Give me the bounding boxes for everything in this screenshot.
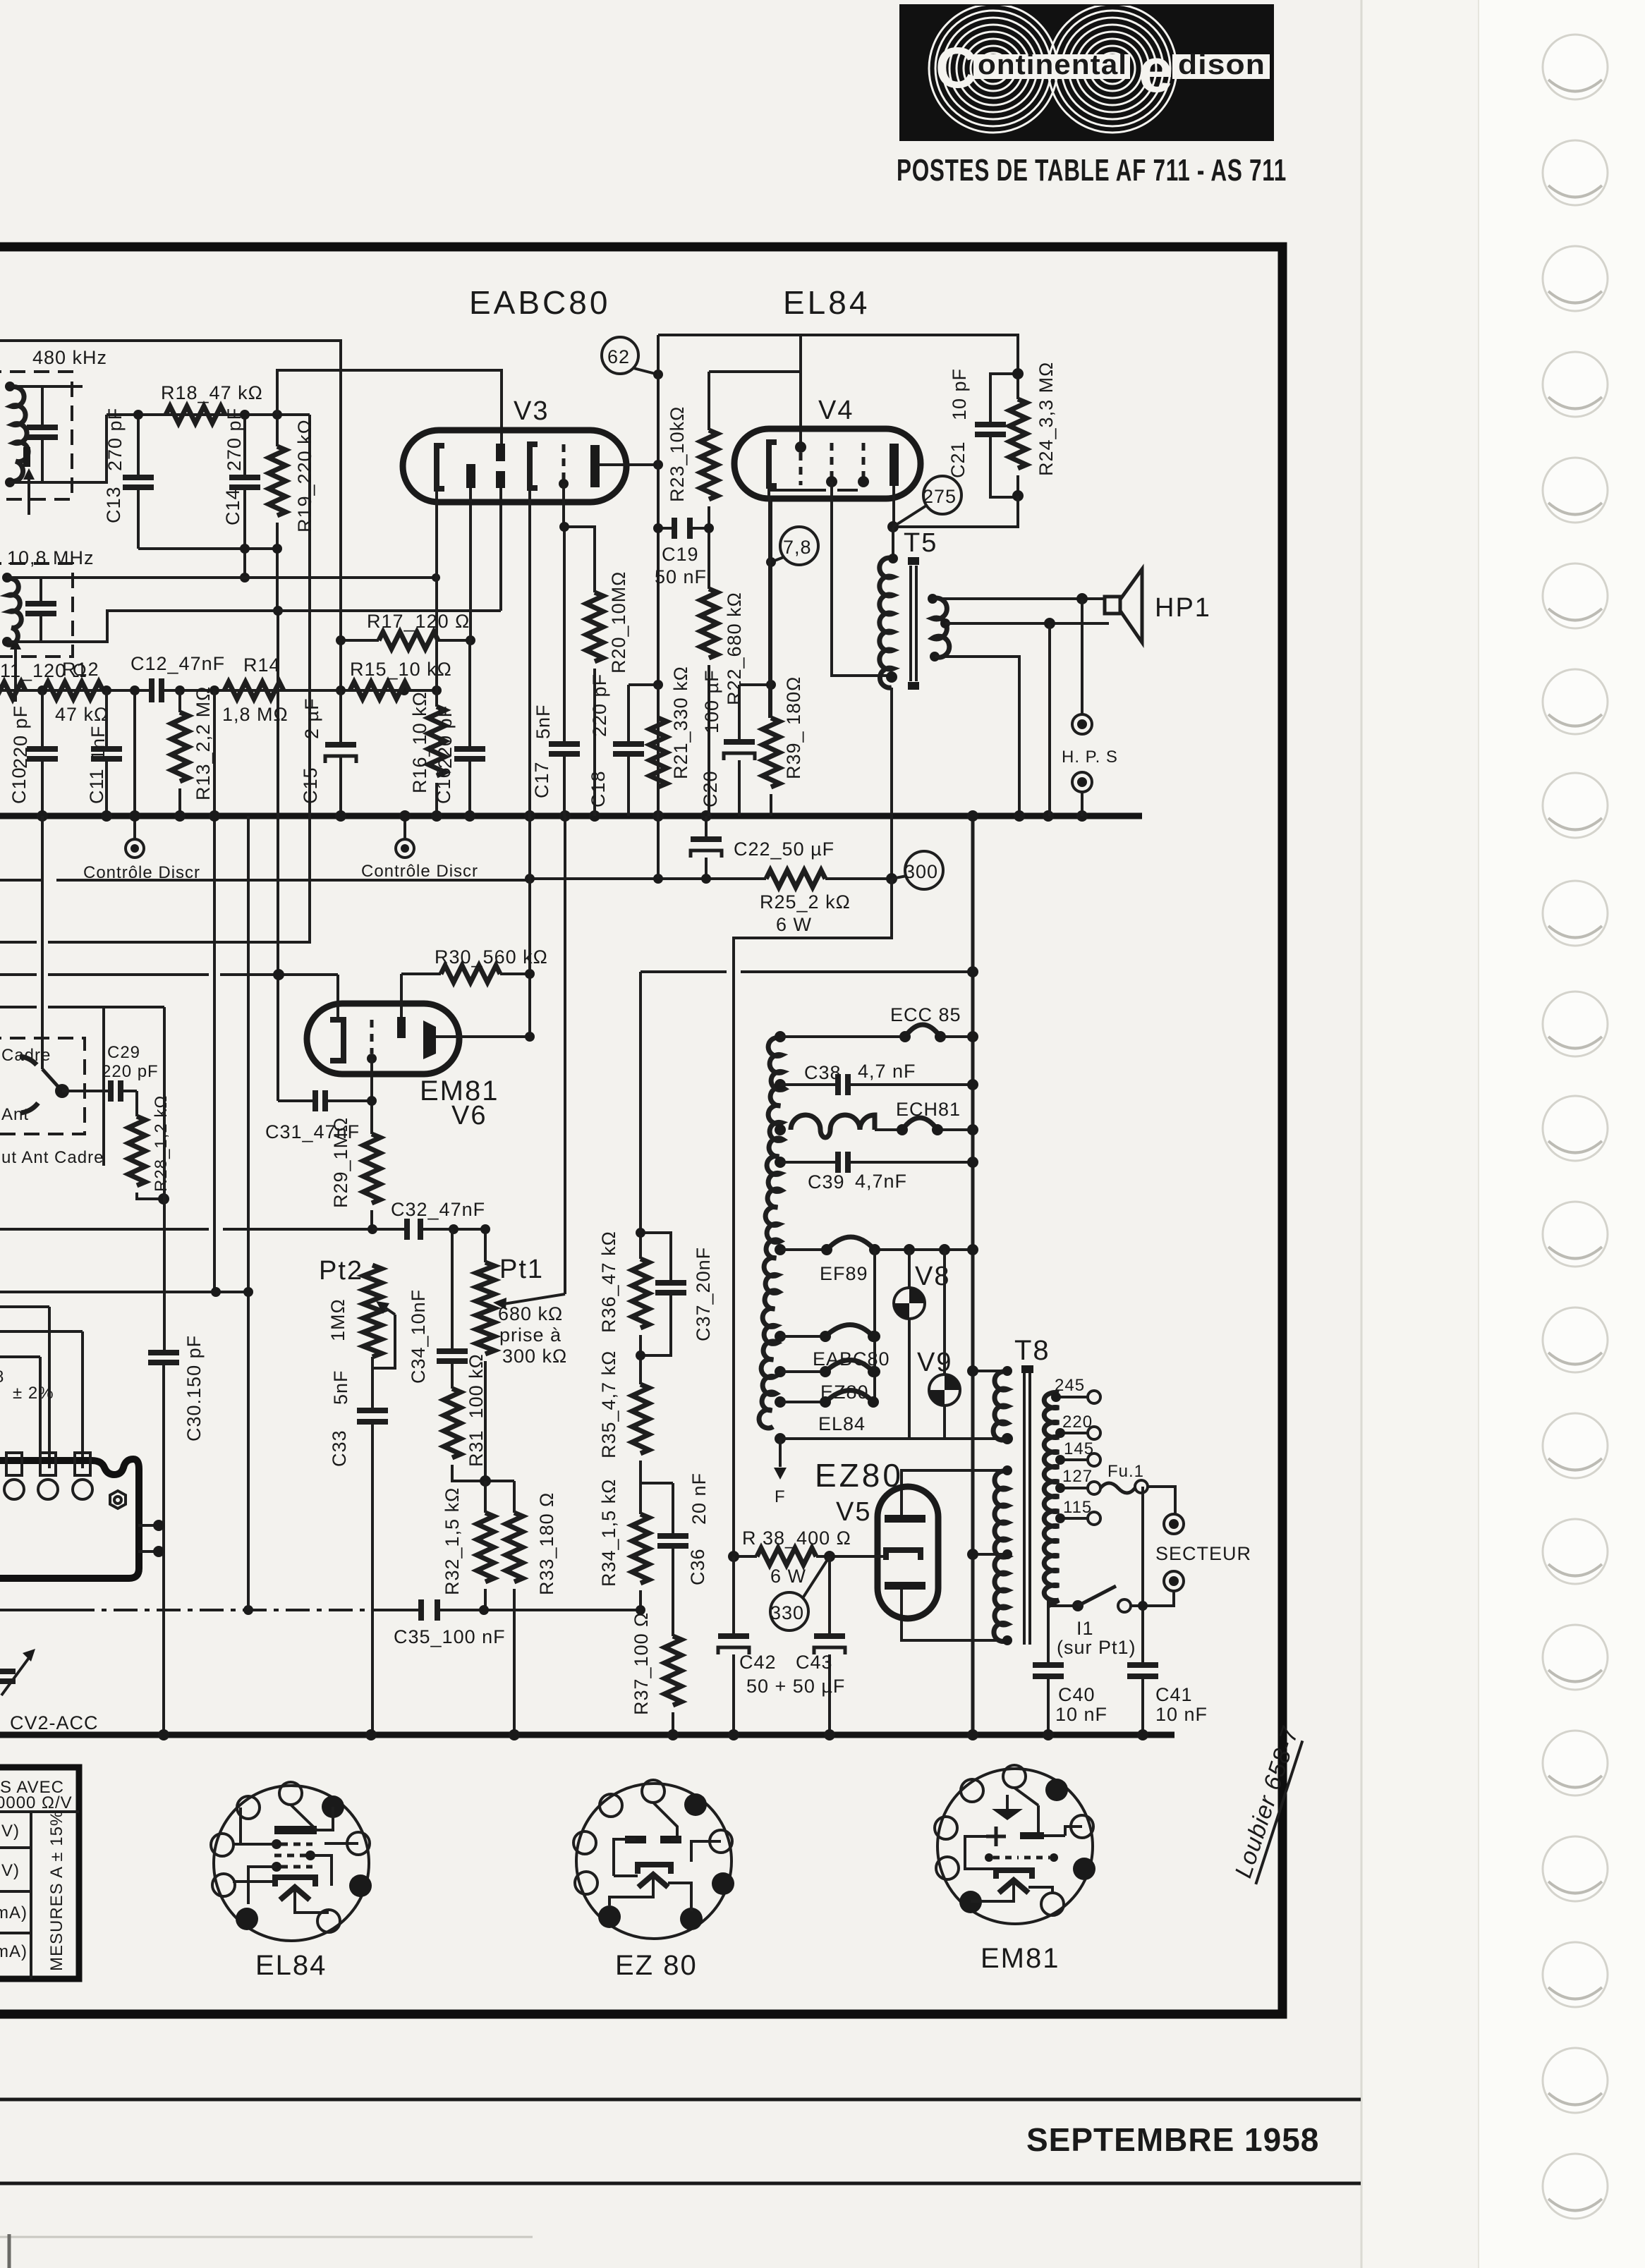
svg-text:EL84: EL84 <box>783 284 870 321</box>
footer rules <box>0 2098 1361 2102</box>
T5 secondary coil <box>933 598 949 657</box>
resistor R23 10k <box>708 372 710 589</box>
rim pins <box>279 1782 302 1805</box>
svg-text:(sur Pt1): (sur Pt1) <box>1057 1637 1136 1658</box>
wire to C29 <box>62 1090 111 1092</box>
wire fuse node to C41 <box>1141 1487 1144 1735</box>
svg-text:T8: T8 <box>1014 1335 1050 1366</box>
resistor R15 10k <box>350 682 409 699</box>
capacitor C37 20nF <box>641 1233 671 1355</box>
svg-text:10 nF: 10 nF <box>1055 1704 1107 1725</box>
V6 cathode wire <box>336 975 339 1020</box>
trimmer 2 <box>40 1453 56 1475</box>
svg-text:R14: R14 <box>243 654 281 676</box>
svg-text:62: 62 <box>607 346 630 367</box>
resistor R25 2k 6W <box>766 870 825 887</box>
capacitor C20 100uF electrolytic <box>739 685 771 816</box>
capacitor C15 2uF electrolytic <box>339 690 342 816</box>
signature Loubier 658-7 <box>1229 1724 1305 1884</box>
plus sign <box>986 1827 1006 1846</box>
cathode bracket <box>275 1877 315 1886</box>
heater chevron <box>280 1887 310 1900</box>
wire HPS column to bus <box>1048 623 1051 816</box>
svg-text:C41: C41 <box>1155 1684 1193 1705</box>
svg-text:C18: C18 <box>588 770 609 807</box>
svg-text:H. P. S: H. P. S <box>1062 748 1118 767</box>
tube link EF89 <box>827 1237 875 1250</box>
capacitor C14 <box>243 415 246 578</box>
heater top row ECC85 <box>780 1035 973 1038</box>
filament arrow F <box>779 1439 782 1467</box>
dash-dot AGC line <box>0 1609 641 1611</box>
heater chevron <box>999 1880 1028 1893</box>
trimmer arrow <box>28 474 30 515</box>
Pt1 wiper <box>493 1298 506 1310</box>
capacitor C36 20nF <box>672 1483 674 1636</box>
antenna switch dashed box <box>0 1038 85 1134</box>
C39 row <box>780 1161 973 1164</box>
socket internal wires <box>233 1805 358 1913</box>
wire plate feedback row <box>893 496 1018 527</box>
svg-text:V5: V5 <box>836 1497 871 1527</box>
V5 cathode lead <box>830 1555 886 1558</box>
resistor R17 120 ohm <box>341 639 471 642</box>
wire column C11 down <box>102 1007 105 1166</box>
svg-text:R34_1,5 kΩ: R34_1,5 kΩ <box>598 1479 619 1587</box>
tap 127 + fuse Fu.1 <box>1059 1487 1088 1489</box>
AVC-line row to back bias <box>641 970 973 973</box>
V4 grid2 dashed <box>830 443 834 477</box>
tap 245 <box>1055 1396 1088 1398</box>
resistor R29 1M <box>363 1134 380 1203</box>
resistor R35 4.7k <box>632 1384 649 1453</box>
svg-text:EZ 80: EZ 80 <box>615 1950 698 1981</box>
T5 primary coil <box>892 527 894 557</box>
HT vertical rail <box>971 816 975 1735</box>
V4 pin wires <box>769 486 770 718</box>
svg-text:SECTEUR: SECTEUR <box>1155 1543 1251 1564</box>
svg-text:300 kΩ: 300 kΩ <box>502 1346 567 1367</box>
resistor R19 220k <box>276 415 279 611</box>
capacitor C35 100nF series <box>421 1599 437 1621</box>
svg-text:V): V) <box>1 1822 20 1841</box>
V3 plate lead <box>600 463 658 466</box>
wire coil bottom row to R18 row <box>10 415 107 482</box>
trimmer arrow 2 <box>14 645 17 702</box>
resistor R21 330k <box>657 685 660 718</box>
svg-text:6 W: 6 W <box>776 914 812 935</box>
target bars <box>1020 1832 1044 1839</box>
svg-text:R23_10kΩ: R23_10kΩ <box>667 406 688 502</box>
socket diagram EM81 <box>935 1765 1095 1974</box>
resistor R37 100 ohm <box>664 1636 681 1705</box>
IF tuning capacitor (10.8MHz) <box>40 578 42 642</box>
svg-text:V4: V4 <box>818 396 854 425</box>
svg-text:C20: C20 <box>700 770 721 807</box>
pointer 275 <box>893 506 926 527</box>
resistor R22 680k <box>700 589 717 658</box>
schematic frame <box>0 247 1282 2014</box>
V3 grid plates <box>496 444 505 461</box>
tap 145 <box>1059 1458 1088 1461</box>
jack SECTEUR top <box>1164 1514 1184 1534</box>
svg-text:680 kΩ: 680 kΩ <box>498 1303 563 1324</box>
socket diagram EZ80 <box>573 1780 734 1981</box>
svg-text:C29: C29 <box>107 1043 140 1062</box>
resistor R38 400 ohm <box>734 1555 830 1558</box>
svg-text:C39: C39 <box>808 1171 845 1193</box>
node circle 7,8 <box>780 527 818 565</box>
svg-text:10,8 MHz: 10,8 MHz <box>7 547 95 568</box>
svg-text:R18_47 kΩ: R18_47 kΩ <box>161 382 263 403</box>
switch contacts <box>20 1056 37 1065</box>
T8 HV bottom lead to EZ80 heater <box>902 1590 1007 1640</box>
heater chain coil <box>759 1037 784 1428</box>
core bar <box>23 447 30 467</box>
page bottom edge fragment <box>0 2236 533 2238</box>
svg-text:C22_50 µF: C22_50 µF <box>734 839 834 860</box>
bottom ground bus <box>0 1732 1174 1738</box>
socket internal wires <box>609 1803 721 1911</box>
T8 heater winding <box>973 1370 1007 1372</box>
resistor R28 1.2k <box>135 1091 138 1116</box>
svg-text:R19_220 kΩ: R19_220 kΩ <box>294 419 315 532</box>
svg-text:C: C <box>935 36 978 100</box>
svg-text:480 kHz: 480 kHz <box>32 347 107 368</box>
svg-text:V): V) <box>1 1861 20 1880</box>
svg-text:ontinental: ontinental <box>978 49 1127 80</box>
resistor R16 10k <box>435 690 438 816</box>
resistor R12 47k <box>44 682 103 699</box>
hex nut <box>110 1491 126 1508</box>
IF tuning capacitor (480kHz) <box>41 386 44 482</box>
dash rows <box>993 1856 1019 1860</box>
svg-text:± 2%: ± 2% <box>13 1384 54 1403</box>
svg-text:EL84: EL84 <box>255 1950 327 1981</box>
V4 cathode bracket <box>769 442 777 486</box>
svg-text:2 µF: 2 µF <box>301 697 322 739</box>
ECH81 row <box>875 1128 973 1131</box>
measurement table <box>0 1767 79 1979</box>
svg-text:C38: C38 <box>804 1062 842 1083</box>
svg-text:R32_1,5 kΩ: R32_1,5 kΩ <box>442 1487 463 1595</box>
C13/C14 bottom row <box>138 547 278 550</box>
svg-text:220 pF: 220 pF <box>435 705 456 769</box>
tube link ECC85 <box>905 1025 940 1037</box>
svg-text:275: 275 <box>923 486 957 507</box>
T8 core <box>1024 1368 1030 1645</box>
svg-text:C11: C11 <box>86 768 107 804</box>
jack SECTEUR bottom <box>1164 1571 1184 1591</box>
svg-text:20 nF: 20 nF <box>688 1473 710 1525</box>
svg-text:prise à: prise à <box>499 1324 562 1346</box>
wire B+ branch down to audio section <box>734 879 892 1556</box>
svg-text:C40: C40 <box>1058 1684 1095 1705</box>
capacitor C39 4.7nF <box>838 1152 848 1173</box>
resistor R30 560k <box>401 973 530 975</box>
svg-text:C21: C21 <box>947 441 969 478</box>
tube column <box>873 1250 876 1402</box>
node circle 300 <box>905 851 943 889</box>
svg-text:C17: C17 <box>531 761 552 798</box>
svg-text:V9: V9 <box>917 1348 952 1377</box>
capacitor C10 220pF <box>41 690 44 816</box>
resistor R39 180 ohm <box>770 499 772 718</box>
R18 row wire <box>107 413 310 416</box>
svg-text:50 nF: 50 nF <box>655 566 707 587</box>
V5 plate bottom <box>885 1582 925 1590</box>
svg-text:R16_10 kΩ: R16_10 kΩ <box>409 691 430 793</box>
wire col751 below bus <box>528 816 531 1037</box>
capacitor C33 5nF <box>371 1357 374 1735</box>
socket internal wires <box>965 1788 1082 1901</box>
svg-text:R28_1,2 kΩ: R28_1,2 kΩ <box>152 1095 171 1192</box>
svg-text:50 + 50 µF: 50 + 50 µF <box>746 1676 845 1697</box>
svg-text:MESURES A ± 15%: MESURES A ± 15% <box>47 1810 66 1971</box>
svg-text:220 pF: 220 pF <box>102 1062 159 1081</box>
loudspeaker HP1 <box>1105 597 1120 614</box>
trimmer feed columns <box>49 1307 83 1468</box>
svg-text:ECH81: ECH81 <box>896 1099 961 1120</box>
svg-text:100 µF: 100 µF <box>701 669 722 733</box>
svg-text:6 W: 6 W <box>770 1566 806 1587</box>
resistor R33 180 ohm <box>513 1481 516 1513</box>
svg-text:C10: C10 <box>8 767 30 804</box>
svg-text:POSTES DE TABLE AF 711 - AS 71: POSTES DE TABLE AF 711 - AS 711 <box>897 153 1287 188</box>
svg-text:5: 5 <box>0 348 1 369</box>
resistor R24 3.3M <box>1016 374 1019 496</box>
svg-text:C33: C33 <box>329 1429 350 1467</box>
IF coil L (480kHz) <box>10 387 28 482</box>
svg-text:C15: C15 <box>300 767 321 804</box>
detector row wire <box>0 689 436 692</box>
bottom bus dots <box>365 1729 377 1740</box>
V3 diode cathode bracket 2 <box>530 444 538 488</box>
capacitor C43 50uF electrolytic <box>828 1556 831 1735</box>
svg-text:C16: C16 <box>433 767 454 804</box>
svg-text:Fu.1: Fu.1 <box>1107 1462 1144 1481</box>
wire 10.8 bottom row to V3 detector <box>7 488 501 642</box>
chassis tuning block <box>0 1459 139 1578</box>
tube link EL84 <box>780 1401 824 1403</box>
T5 primary bottom to 300 node <box>890 688 893 879</box>
binder holes <box>1543 35 1608 2219</box>
trimmer 1 <box>6 1453 22 1475</box>
T8 HV mid tap to rail <box>973 1553 1007 1556</box>
wire fuse to SECTEUR <box>1148 1487 1175 1515</box>
svg-text:C13: C13 <box>103 486 124 523</box>
V3 pin wires <box>435 489 438 690</box>
capacitor C18 220pF <box>629 685 658 816</box>
svg-text:R33_180 Ω: R33_180 Ω <box>536 1492 557 1595</box>
V5 cathode bracket <box>886 1550 921 1560</box>
capacitor C12 47nF series <box>152 680 162 701</box>
V6 fluorescent screen <box>423 1020 436 1059</box>
svg-text:R 38_400 Ω: R 38_400 Ω <box>742 1528 851 1549</box>
svg-text:EABC80: EABC80 <box>469 284 610 321</box>
main ground bus <box>0 813 1142 819</box>
wire column from R18 row down <box>0 415 310 942</box>
svg-text:mA): mA) <box>0 1942 28 1961</box>
speaker wire top <box>933 597 1105 600</box>
switch arm <box>42 1069 62 1091</box>
T8 mains winding <box>1044 1392 1059 1606</box>
node circle 330 <box>770 1592 808 1630</box>
oscillator row fragment <box>0 1307 83 1331</box>
capacitor C31 47nF series <box>278 1099 372 1102</box>
svg-text:HP1: HP1 <box>1155 593 1211 623</box>
capacitor C32 47nF series <box>372 1228 485 1231</box>
svg-text:R31_100 kΩ: R31_100 kΩ <box>466 1353 487 1467</box>
capacitor C42 50uF electrolytic <box>732 1556 735 1735</box>
padder row with 2% cap <box>0 1357 40 1468</box>
wire row to oscillator padder <box>0 1006 164 1008</box>
svg-text:CV2-ACC: CV2-ACC <box>10 1712 99 1733</box>
svg-text:T5: T5 <box>904 528 937 558</box>
svg-text:245: 245 <box>1055 1376 1085 1395</box>
V6 target wire <box>400 974 403 1017</box>
IF coil L (10.8MHz) <box>7 578 21 645</box>
fuse element <box>1100 1483 1135 1493</box>
svg-text:EL84: EL84 <box>818 1413 866 1434</box>
tube V5 EZ80 rectifier <box>878 1487 938 1618</box>
svg-text:R37_100 Ω: R37_100 Ω <box>631 1612 652 1715</box>
svg-text:EF89: EF89 <box>820 1263 868 1284</box>
node circle 62 <box>602 337 638 374</box>
V6 screen wire <box>436 1035 530 1038</box>
V6 grid column <box>370 1059 373 1134</box>
svg-text:mA): mA) <box>0 1903 28 1922</box>
tube link EABC80 <box>780 1335 824 1338</box>
resistor R18 47k <box>166 406 225 423</box>
svg-text:ECC 85: ECC 85 <box>890 1004 961 1025</box>
resistor R36 47k <box>639 972 642 1259</box>
svg-text:R25_2 kΩ: R25_2 kΩ <box>760 891 851 913</box>
svg-text:4,7nF: 4,7nF <box>855 1171 907 1192</box>
Continental Edison logo <box>900 4 1273 140</box>
svg-text:Pt1: Pt1 <box>499 1255 544 1284</box>
svg-text:Contrôle Discr: Contrôle Discr <box>361 862 478 881</box>
capacitor C19 50nF series <box>658 527 709 530</box>
svg-text:V6: V6 <box>451 1101 487 1130</box>
switch I1 <box>1048 1599 1078 1606</box>
V4 plate <box>890 444 899 486</box>
capacitor C38 4.7nF <box>838 1074 848 1095</box>
svg-text:1,8 MΩ: 1,8 MΩ <box>222 704 289 725</box>
svg-text:5nF: 5nF <box>533 704 554 739</box>
svg-text:EZ80: EZ80 <box>815 1457 904 1494</box>
svg-text:R20_10MΩ: R20_10MΩ <box>608 571 629 673</box>
svg-text:R29_1MΩ: R29_1MΩ <box>330 1117 351 1208</box>
svg-text:R39_ 180Ω: R39_ 180Ω <box>783 676 804 779</box>
svg-text:C19: C19 <box>662 544 699 565</box>
capacitor C40 10nF <box>1047 1606 1050 1735</box>
svg-text:R35_4,7 kΩ: R35_4,7 kΩ <box>598 1351 619 1458</box>
V6 cathode bracket <box>330 1020 344 1061</box>
svg-text:300: 300 <box>904 861 938 882</box>
trimmer 3 <box>75 1453 90 1475</box>
anode bars <box>625 1836 646 1843</box>
tube V6 EM81 <box>307 1004 459 1074</box>
resistor R34 1.5k <box>639 1483 642 1514</box>
svg-text:115: 115 <box>1063 1498 1092 1517</box>
wire V3 pin2 column <box>469 502 472 640</box>
wire AVC top <box>0 341 341 690</box>
svg-text:I1: I1 <box>1076 1618 1094 1639</box>
V4 grid1 dashed <box>795 441 806 453</box>
svg-text:C12_47nF: C12_47nF <box>130 653 225 674</box>
svg-text:10 pF: 10 pF <box>949 368 970 420</box>
svg-text:8: 8 <box>0 1367 4 1386</box>
svg-text:R17_120 Ω: R17_120 Ω <box>367 611 470 632</box>
V6 target rod <box>397 1017 406 1038</box>
svg-text:R13_2,2 MΩ: R13_2,2 MΩ <box>193 686 214 800</box>
svg-text:EM81: EM81 <box>981 1943 1060 1974</box>
chassis terminals <box>138 1525 164 1551</box>
speaker wire bottom <box>945 622 1109 625</box>
pointer 7,8 <box>771 557 784 562</box>
resistor R32 1.5k <box>484 1481 487 1513</box>
capacitor C22 50uF electrolytic <box>705 816 708 879</box>
capacitor C13 <box>137 415 140 549</box>
wire discriminator AF column to C31 <box>277 611 279 1101</box>
grid rows dashed <box>281 1843 312 1846</box>
tube V3 EABC80 <box>403 430 626 502</box>
svg-text:C14: C14 <box>222 488 243 525</box>
V3 diode cathode bracket 1 <box>437 446 444 489</box>
heater bottom row <box>780 1437 1007 1440</box>
svg-text:Ant: Ant <box>1 1105 29 1124</box>
V6 grid dashed <box>370 1020 374 1054</box>
oscillator coupling coil <box>791 1115 875 1138</box>
bus junction dots <box>37 810 48 822</box>
jack H.P.S top <box>1081 599 1083 714</box>
wire col801 to Pt1 wiper <box>564 816 566 1294</box>
svg-text:R12: R12 <box>62 659 99 680</box>
pointer 330 <box>803 1556 830 1598</box>
jack Controle Discr 1 <box>133 690 136 839</box>
resistor R20 10M <box>586 592 603 661</box>
wire 10.8 top row <box>7 576 436 579</box>
resistor R14 1.8M <box>224 682 284 699</box>
svg-text:330: 330 <box>770 1602 804 1623</box>
Pt2 wiper <box>372 1315 395 1368</box>
wire coil top row <box>10 385 83 388</box>
resistor R11 120 ohm (cut at edge) <box>0 682 25 699</box>
capacitor C17 5nF <box>549 744 580 754</box>
T8 HV winding <box>994 1471 1007 1642</box>
svg-text:R22_680 kΩ: R22_680 kΩ <box>724 592 745 705</box>
capacitor C16 220pF <box>468 640 471 816</box>
svg-text:C36: C36 <box>687 1548 708 1585</box>
plate bar <box>274 1826 317 1834</box>
V3 triode plate <box>590 445 600 487</box>
svg-text:dison: dison <box>1178 49 1265 80</box>
svg-text:1nF: 1nF <box>87 725 109 760</box>
svg-text:220 pF: 220 pF <box>10 705 31 769</box>
svg-text:R36_47 kΩ: R36_47 kΩ <box>598 1231 619 1333</box>
tube link EZ80 <box>780 1370 824 1373</box>
svg-text:0000 Ω/V: 0000 Ω/V <box>0 1793 73 1812</box>
heater chevron <box>638 1874 668 1887</box>
svg-text:145: 145 <box>1064 1439 1094 1458</box>
T8 HV top lead to EZ80 plate <box>902 1470 1007 1515</box>
ground triangle <box>992 1809 1023 1820</box>
svg-text:C34_10nF: C34_10nF <box>408 1289 429 1384</box>
jack H.P.S bottom <box>1072 772 1092 792</box>
svg-text:C30.150 pF: C30.150 pF <box>183 1335 205 1441</box>
cathode bracket <box>996 1870 1032 1879</box>
